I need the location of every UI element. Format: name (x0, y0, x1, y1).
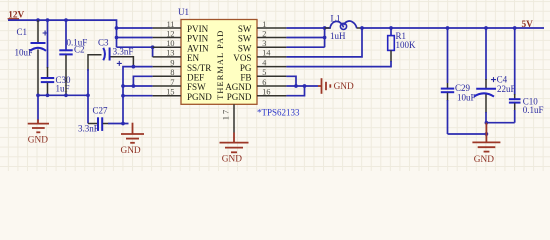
wire 5V rail (362, 27, 544, 29)
svg-text:AVIN: AVIN (187, 43, 209, 53)
svg-text:11: 11 (167, 20, 175, 29)
svg-text:GND: GND (222, 155, 242, 165)
ground GND middle (121, 123, 145, 156)
wire FSW pin7 feed (123, 85, 153, 87)
junction rail/R1 (389, 26, 393, 30)
svg-text:EN: EN (187, 53, 200, 63)
pin 11 PVIN (153, 20, 209, 34)
svg-text:2: 2 (262, 29, 266, 38)
wire AVIN pin10 feed (117, 46, 153, 48)
pin 6 AGND (225, 78, 286, 92)
svg-text:FSW: FSW (187, 82, 206, 92)
svg-text:PGND: PGND (187, 92, 212, 102)
junction AVIN/EN (151, 45, 155, 49)
wire SW bus (325, 28, 330, 47)
junction vertical/PGND15 (121, 94, 125, 98)
ground GND bottom center (220, 133, 249, 165)
pin 2 SW (238, 29, 287, 43)
wire GND drop left (37, 95, 39, 120)
wire FB to AGND (286, 76, 296, 86)
svg-text:17: 17 (221, 109, 231, 120)
junction PGND16/AGND (303, 84, 307, 88)
junction C4/C10 gnd (485, 121, 489, 125)
capacitor C3 3.3nF (88, 38, 133, 71)
svg-text:5: 5 (262, 68, 266, 77)
pin 16 PGND (227, 88, 287, 102)
junction rail/C2 (64, 18, 68, 22)
wire SW pin1 (286, 27, 324, 29)
svg-text:SW: SW (238, 43, 252, 53)
svg-text:15: 15 (166, 88, 174, 97)
svg-text:100K: 100K (396, 40, 417, 50)
svg-text:PVIN: PVIN (187, 34, 209, 44)
junction rail/C29 (446, 26, 450, 30)
wire SW pin3 (286, 46, 324, 48)
svg-text:C27: C27 (93, 106, 109, 116)
junction vert/pin12 (115, 36, 119, 40)
wire PVIN pin11 feed (117, 27, 153, 29)
junction bus/C30 (46, 93, 50, 97)
junction SW bus pin1 (323, 26, 327, 30)
wire ground bus left (38, 94, 88, 96)
svg-text:1uF: 1uF (56, 84, 70, 94)
net 12V power port (8, 10, 25, 20)
wire C29 gnd run (448, 133, 487, 135)
svg-text:16: 16 (262, 88, 270, 97)
capacitor C29 10uF (441, 28, 476, 134)
svg-text:7: 7 (170, 78, 174, 87)
pin 13 EN (153, 49, 200, 63)
sheet background (0, 0, 550, 171)
svg-text:6: 6 (262, 78, 266, 87)
svg-text:GND: GND (121, 146, 141, 156)
junction C3/SS-TR row (132, 65, 136, 69)
wire C27 to GND node (108, 123, 129, 125)
capacitor C1 10uF polarized (15, 20, 48, 95)
svg-text:14: 14 (262, 49, 270, 58)
svg-text:10: 10 (166, 39, 174, 48)
junction FB/AGND (294, 84, 298, 88)
svg-text:FB: FB (240, 73, 251, 83)
junction SW bus pin2 (323, 36, 327, 40)
pin 7 FSW (153, 78, 207, 92)
junction vertical/FSW (121, 84, 125, 88)
svg-text:8: 8 (170, 68, 174, 77)
junction bus/C3-C27 vertical (86, 93, 90, 97)
wire C3/C27 vertical (87, 69, 89, 124)
svg-text:10uF: 10uF (15, 48, 34, 58)
wire PVIN pin12 feed (117, 37, 153, 39)
svg-text:SW: SW (238, 24, 252, 34)
junction rail/C4 (484, 26, 488, 30)
pin 5 FB (240, 68, 286, 82)
svg-text:AGND: AGND (225, 82, 252, 92)
svg-text:9: 9 (170, 58, 174, 67)
svg-text:1: 1 (262, 20, 266, 29)
pin 15 PGND (153, 88, 213, 102)
wire VOS sense (286, 28, 362, 57)
ground GND right of chip (318, 78, 354, 94)
svg-text:C4: C4 (497, 74, 508, 84)
capacitor C27 3.3nF (78, 106, 108, 134)
svg-text:DEF: DEF (187, 73, 204, 83)
wire PGND pin15 feed (123, 95, 153, 97)
svg-text:3.3nF: 3.3nF (78, 124, 99, 134)
junction bus/C2 (64, 93, 68, 97)
svg-text:C2: C2 (74, 45, 85, 55)
junction C29run/gnd-stem (485, 132, 489, 136)
svg-text:PVIN: PVIN (187, 24, 209, 34)
pin 1 SW (238, 20, 287, 34)
svg-text:GND: GND (474, 155, 494, 165)
pin 10 AVIN (153, 39, 209, 53)
pin 4 PG (240, 58, 287, 72)
junction bus/C1-GND (36, 93, 40, 97)
capacitor C30 1uF (41, 20, 71, 95)
op-amp/IC U1 TPS62133 body (181, 20, 257, 105)
svg-text:3.3nF: 3.3nF (113, 46, 134, 56)
svg-text:VOS: VOS (233, 53, 251, 63)
inductor L1 1uH (325, 14, 362, 42)
svg-text:5V: 5V (522, 20, 534, 30)
junction rail/C30 (46, 18, 50, 22)
capacitor C10 0.1uF (509, 28, 544, 123)
resistor R1 100K (388, 28, 416, 62)
pin 12 PVIN (153, 29, 209, 43)
svg-text:C1: C1 (17, 27, 28, 37)
svg-text:22uF: 22uF (497, 84, 516, 94)
wire 12V rail (8, 20, 117, 47)
pin 3 SW (238, 39, 287, 53)
junction DEF/FSW (132, 84, 136, 88)
svg-text:GND: GND (28, 135, 48, 145)
svg-text:13: 13 (166, 49, 174, 58)
wire PG pullup (286, 61, 391, 67)
svg-text:GND: GND (334, 82, 354, 92)
wire SW pin2 (286, 37, 324, 39)
svg-text:1uH: 1uH (330, 31, 346, 41)
svg-text:L1: L1 (331, 14, 341, 24)
junction C27-net/SSTR vertical (121, 122, 125, 126)
svg-text:3: 3 (262, 39, 266, 48)
capacitor C2 0.1uF (59, 20, 87, 95)
svg-text:U1: U1 (178, 7, 189, 17)
pin 17 thermal pad (221, 104, 235, 132)
wire DEF pin8 feed (133, 76, 152, 86)
svg-text:PG: PG (240, 63, 252, 73)
svg-text:SS/TR: SS/TR (187, 63, 212, 73)
svg-text:0.1uF: 0.1uF (523, 105, 544, 115)
pin 8 DEF (153, 68, 205, 82)
junction rail/C10 (513, 26, 517, 30)
junction vert/pin11 (115, 26, 119, 30)
capacitor C4 22uF polarized (474, 28, 516, 123)
wire C10 to GND node (486, 122, 514, 124)
svg-text:THERMAL PAD: THERMAL PAD (216, 31, 225, 100)
wire SS/TR-FSW-PGND vertical (123, 67, 153, 124)
svg-text:C3: C3 (98, 38, 109, 48)
wire PGND16 up (286, 86, 304, 96)
svg-text:12: 12 (166, 29, 174, 38)
pin 14 VOS (233, 49, 286, 63)
ground GND left (28, 120, 49, 146)
wire EN pin13 feed (152, 47, 154, 57)
ground GND right (472, 123, 500, 165)
svg-text:SW: SW (238, 34, 252, 44)
wire AGND row (286, 85, 318, 87)
junction rail/C1 (36, 18, 40, 22)
svg-text:PGND: PGND (227, 92, 252, 102)
pin 9 SS/TR (153, 58, 213, 72)
junction L1 out / VOS drop (360, 26, 364, 30)
svg-text:*TPS62133: *TPS62133 (257, 107, 300, 117)
svg-text:10uF: 10uF (457, 92, 476, 102)
svg-text:4: 4 (262, 58, 266, 67)
